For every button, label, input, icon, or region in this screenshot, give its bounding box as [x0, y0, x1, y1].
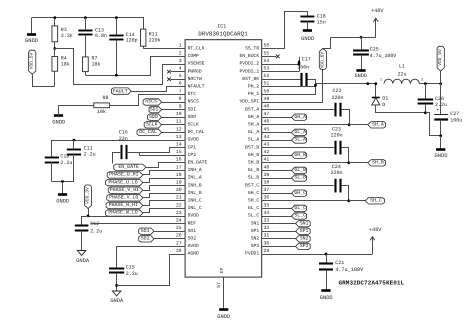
flag PHASE_V_HI	[108, 187, 143, 193]
svg-text:SP2: SP2	[300, 243, 309, 249]
svg-text:44: 44	[264, 134, 270, 140]
svg-text:35: 35	[264, 202, 270, 208]
svg-text:COMP: COMP	[188, 53, 199, 59]
svg-text:PHASE_W_HI: PHASE_W_HI	[109, 202, 138, 208]
capacitor C24 220n	[334, 179, 336, 193]
svg-text:4.7u_100V: 4.7u_100V	[335, 267, 364, 273]
svg-text:+48V: +48V	[369, 227, 382, 233]
svg-text:18k: 18k	[92, 62, 101, 68]
wire pin45 GL_A	[276, 132, 291, 134]
svg-text:15: 15	[176, 149, 182, 155]
svg-text:SL_A: SL_A	[294, 137, 306, 143]
svg-text:SP2: SP2	[251, 243, 260, 249]
svg-text:49: 49	[264, 96, 270, 102]
wire pin32 SP1	[276, 231, 295, 233]
svg-text:C10: C10	[60, 153, 69, 159]
capacitor C26 2.2u	[425, 84, 427, 100]
svg-text:22: 22	[176, 202, 182, 208]
svg-text:SH_A: SH_A	[372, 122, 384, 128]
svg-text:GH_C: GH_C	[294, 190, 306, 196]
svg-text:+48V: +48V	[371, 8, 384, 14]
flag SL_C	[292, 213, 307, 219]
svg-text:12: 12	[176, 126, 182, 132]
svg-text:PH_1: PH_1	[248, 91, 259, 97]
resistor R3 3.3k	[54, 18, 56, 26]
svg-text:41: 41	[264, 157, 270, 163]
node junction PH	[314, 84, 317, 87]
capacitor C15 2.2u	[109, 268, 124, 270]
wire pin37 GH_C	[276, 193, 291, 195]
svg-text:VDD_5V: VDD_5V	[29, 52, 35, 69]
wire pin47 GH_A	[276, 117, 291, 119]
wire SDI to pin9	[162, 109, 171, 111]
capacitor C18 15n	[300, 16, 314, 18]
svg-text:120p: 120p	[126, 38, 138, 44]
svg-text:PHASE_V_HI: PHASE_V_HI	[110, 187, 139, 193]
svg-text:GL_B: GL_B	[294, 167, 306, 173]
svg-text:2.2u: 2.2u	[60, 160, 72, 166]
node junction DVDD	[87, 215, 90, 218]
wire SDO to pin10	[162, 117, 171, 119]
svg-text:SN2: SN2	[251, 236, 260, 242]
svg-text:5: 5	[179, 73, 182, 79]
wire pin29 PVDD1	[276, 254, 372, 256]
svg-text:SCLK: SCLK	[188, 122, 199, 128]
svg-text:3: 3	[179, 58, 182, 64]
svg-text:INL_A: INL_A	[188, 175, 202, 181]
wire pin36 SH_C	[276, 200, 349, 202]
wire PHASE_V_LO to pin20	[143, 194, 171, 198]
node junction R3 top	[53, 16, 56, 19]
svg-text:C15: C15	[126, 265, 135, 271]
svg-text:EN_GATE: EN_GATE	[118, 164, 139, 170]
power flag VDD_5V right	[437, 46, 444, 71]
svg-text:BST_A: BST_A	[245, 106, 259, 112]
capacitor C27 100u polarized	[440, 84, 442, 115]
svg-text:GNDD: GNDD	[320, 295, 333, 301]
svg-text:SCLK: SCLK	[146, 122, 158, 128]
flag SH_A	[368, 122, 386, 128]
no-connect x pin4 PWRGD	[167, 70, 171, 74]
svg-text:PVDD2_1: PVDD2_1	[239, 68, 259, 74]
svg-text:10k: 10k	[97, 109, 106, 115]
resistor R11 220k	[141, 29, 146, 46]
svg-text:D: D	[382, 102, 385, 108]
wire L1 right to output node	[419, 83, 440, 85]
node junction R3/R4	[53, 47, 56, 50]
wire pin50 PH_1	[277, 87, 316, 95]
svg-text:37: 37	[264, 187, 270, 193]
wire PHASE_U_HI to pin17	[143, 171, 171, 175]
svg-text:SP1: SP1	[300, 228, 309, 234]
capacitor C12 2.2u	[75, 225, 89, 227]
flag GL_A	[292, 129, 307, 135]
svg-text:220n: 220n	[331, 132, 343, 138]
IC1 left pins 1-28	[171, 48, 186, 50]
svg-text:46: 46	[264, 119, 270, 125]
wire pin41 SH_B	[276, 162, 349, 164]
svg-text:INH_C: INH_C	[188, 198, 202, 204]
capacitor C21 4.7u_100V	[326, 254, 328, 264]
node junction PVDD2	[298, 63, 301, 66]
svg-text:40: 40	[264, 164, 270, 170]
ground GNDD at R8	[54, 114, 63, 117]
svg-text:DC_CAL: DC_CAL	[188, 129, 205, 135]
svg-text:1: 1	[179, 43, 182, 49]
svg-text:SN2: SN2	[300, 236, 309, 242]
wire pin43 BST_B to C23	[276, 147, 334, 149]
svg-text:R8: R8	[102, 95, 108, 101]
flag GH_B	[292, 152, 307, 158]
svg-text:GH_A: GH_A	[294, 114, 306, 120]
capacitor C11 2.2u	[73, 140, 75, 149]
wire EN_GATE to pin16	[146, 163, 171, 168]
svg-text:28: 28	[176, 248, 182, 254]
svg-text:SH_C: SH_C	[370, 198, 382, 204]
wire pin24 REF	[91, 223, 171, 225]
wire GVDD rail pin13	[52, 140, 171, 142]
power flag VDD_5V mid	[319, 48, 326, 69]
svg-text:INH_A: INH_A	[188, 167, 202, 173]
wire VDD_SPI pin49	[277, 70, 323, 103]
svg-text:47: 47	[264, 111, 270, 117]
flag SP1	[296, 228, 311, 234]
wire C16 right to pin14 CP1	[127, 148, 171, 153]
svg-text:C27: C27	[450, 111, 459, 117]
wire PHASE_U_LO to pin18	[143, 179, 171, 183]
svg-text:23: 23	[176, 210, 182, 216]
svg-text:C16: C16	[119, 130, 128, 136]
svg-text:DVDD: DVDD	[188, 213, 199, 219]
wire pin27 AVDD to C15	[117, 247, 171, 269]
node junction C14 bottom	[115, 74, 118, 77]
wire PH rail to L1	[316, 83, 376, 85]
svg-text:L1: L1	[399, 64, 405, 70]
ground GNDD below C21	[321, 289, 330, 292]
svg-text:SN1: SN1	[251, 220, 260, 226]
node junction C25 top	[360, 36, 363, 39]
svg-text:2: 2	[421, 78, 423, 83]
svg-text:1: 1	[380, 78, 382, 83]
svg-text:VDD_3V: VDD_3V	[85, 187, 91, 204]
node junction C27 gnd	[439, 134, 442, 137]
svg-text:19: 19	[176, 180, 182, 186]
wire pin30 SP2	[276, 246, 295, 248]
wire to flag SH_A	[349, 124, 368, 126]
ground GNDD below C25	[356, 69, 365, 72]
flag SH_C	[365, 198, 384, 204]
svg-text:EP: EP	[219, 267, 225, 273]
svg-text:4: 4	[179, 66, 182, 72]
svg-text:C17: C17	[302, 57, 311, 63]
svg-text:31: 31	[264, 233, 270, 239]
svg-text:GNDD: GNDD	[435, 153, 448, 159]
flag GL_C	[292, 205, 307, 211]
wire pin28 AGND	[117, 255, 171, 286]
flag SN1	[296, 220, 311, 226]
svg-text:PHASE_U_HI: PHASE_U_HI	[109, 172, 138, 178]
svg-text:INH_B: INH_B	[188, 182, 202, 188]
svg-text:GH_B: GH_B	[294, 152, 306, 158]
wire BST_BK cap to PH	[308, 80, 316, 95]
svg-text:SL_A: SL_A	[248, 137, 259, 143]
node junction rail	[366, 82, 369, 85]
svg-text:52: 52	[264, 73, 270, 79]
svg-text:32: 32	[264, 225, 270, 231]
svg-text:20: 20	[176, 187, 182, 193]
svg-text:SH_B: SH_B	[248, 160, 259, 166]
wire R11 to pin1 RT_CLK	[143, 48, 170, 50]
svg-text:INL_B: INL_B	[188, 190, 202, 196]
node junction C21 top	[325, 253, 328, 256]
resistor R8 10k	[59, 105, 94, 107]
wire pin39 SL_B	[276, 178, 291, 180]
svg-text:PVDD1: PVDD1	[245, 251, 259, 257]
wire divider to pin3 VSENSE	[55, 49, 171, 85]
svg-text:43: 43	[264, 142, 270, 148]
svg-text:D1: D1	[382, 95, 388, 101]
capacitor C14 120p	[116, 18, 118, 35]
svg-text:RT_CLK: RT_CLK	[188, 46, 205, 52]
svg-text:13: 13	[176, 134, 182, 140]
svg-text:15n: 15n	[317, 19, 326, 25]
IC IC1 DRV8301QDCARQ1 body	[185, 40, 262, 277]
wire DC_CAL to pin12	[162, 132, 171, 134]
wire FAULT to pin6 NFAULT	[132, 87, 171, 92]
svg-text:7: 7	[179, 88, 182, 94]
power symbol +48V bottom	[372, 237, 374, 254]
wire pin56 SS_TR to C18	[277, 12, 308, 49]
svg-text:GL_A: GL_A	[248, 129, 259, 135]
diode D1	[375, 84, 377, 98]
svg-text:VDD_5V: VDD_5V	[437, 49, 443, 66]
svg-text:SN1: SN1	[300, 220, 309, 226]
ground GNDA below C12	[77, 251, 86, 256]
ground GNDA below C15	[112, 291, 121, 296]
svg-text:GNDD: GNDD	[301, 36, 314, 42]
node junction D1 top	[374, 82, 377, 85]
svg-text:25: 25	[176, 225, 182, 231]
capacitor C10 2.2u	[51, 140, 53, 157]
power arrow at PVDD2	[299, 57, 301, 64]
svg-text:14: 14	[176, 142, 182, 148]
svg-text:FAULT: FAULT	[113, 88, 128, 94]
ground GNDD at EP	[219, 308, 228, 311]
capacitor C22 220n	[334, 103, 336, 117]
ground GNDD below C10	[62, 182, 64, 195]
svg-text:SH_B: SH_B	[372, 160, 384, 166]
wire VDD_5V flag to rail	[440, 71, 442, 84]
flag GL_B	[292, 167, 307, 173]
svg-text:38: 38	[264, 180, 270, 186]
svg-text:GNDD: GNDD	[25, 38, 38, 44]
svg-text:R11: R11	[149, 32, 158, 38]
svg-text:+: +	[436, 108, 439, 114]
svg-text:11: 11	[176, 119, 182, 125]
wire pin48 BST_A to C22	[276, 109, 334, 111]
wire CP2 branch to pin15	[140, 153, 171, 156]
flag SL_B	[292, 175, 307, 181]
svg-text:55: 55	[264, 50, 270, 56]
svg-text:24: 24	[176, 218, 182, 224]
flag EN_GATE	[114, 164, 146, 170]
flag nSCS	[143, 99, 162, 105]
svg-text:2.2u: 2.2u	[126, 271, 138, 277]
svg-text:BST_C: BST_C	[245, 182, 259, 188]
svg-text:21: 21	[176, 195, 182, 201]
svg-text:DRV8301QDCARQ1: DRV8301QDCARQ1	[198, 31, 248, 38]
svg-text:C25: C25	[370, 47, 379, 53]
svg-text:PHASE_U_LO: PHASE_U_LO	[108, 179, 137, 185]
flag SCLK	[144, 122, 161, 128]
flag DC_CAL	[137, 129, 162, 135]
svg-text:22u: 22u	[397, 71, 406, 77]
svg-text:30: 30	[264, 240, 270, 246]
svg-text:29: 29	[264, 248, 270, 254]
node junction AGND	[115, 284, 118, 287]
wire pin44 SL_A	[276, 140, 291, 142]
wire COMP network to pin2	[86, 57, 171, 76]
wire VDD_3V to pin23 DVDD	[89, 209, 171, 217]
svg-text:AGND: AGND	[188, 251, 199, 257]
wire D1 anode to ground net	[376, 105, 426, 113]
svg-text:PHASE_W_LO: PHASE_W_LO	[108, 210, 137, 216]
wire pin40 GL_B	[276, 170, 291, 172]
svg-text:DC_CAL: DC_CAL	[139, 129, 157, 135]
flag PHASE_U_HI	[107, 172, 143, 178]
svg-text:100u: 100u	[450, 117, 462, 123]
svg-text:100n: 100n	[297, 65, 309, 71]
wire top rail	[32, 18, 144, 30]
flag FAULT	[111, 88, 131, 94]
ground GNDD below C27	[436, 148, 445, 151]
svg-text:3.3k: 3.3k	[61, 33, 73, 39]
node junction C11 top	[73, 139, 76, 142]
svg-text:SDI: SDI	[188, 106, 197, 112]
node junction VDD_5V output	[439, 82, 442, 85]
svg-text:16: 16	[176, 157, 182, 163]
svg-text:GNDD: GNDD	[52, 119, 65, 125]
svg-text:SL_B: SL_B	[248, 175, 259, 181]
flag PHASE_W_HI	[106, 202, 143, 208]
svg-text:SO2: SO2	[141, 236, 150, 242]
wire C16 left to EN_GATE area	[113, 153, 122, 164]
node junction SH_A	[348, 123, 351, 126]
svg-text:53: 53	[264, 66, 270, 72]
svg-text:BST_BK: BST_BK	[242, 76, 259, 82]
svg-text:SDI: SDI	[150, 106, 159, 112]
svg-text:REF: REF	[188, 220, 197, 226]
svg-text:45: 45	[264, 126, 270, 132]
flag SP2	[296, 243, 311, 249]
flag SDI	[149, 106, 162, 112]
wire C23 to SH_B node	[342, 148, 349, 163]
resistor R4 18k	[54, 49, 56, 57]
node junction SH_B	[347, 161, 350, 164]
power flag VDD_3V	[84, 185, 91, 209]
svg-text:SL_B: SL_B	[294, 175, 306, 181]
svg-text:GNDD: GNDD	[355, 73, 367, 79]
svg-text:56: 56	[264, 43, 270, 49]
svg-text:10: 10	[176, 111, 182, 117]
wire PVDD2 tie pins 53/54	[276, 64, 299, 66]
svg-text:VDD_SPI: VDD_SPI	[239, 99, 259, 105]
svg-text:PWRGD: PWRGD	[188, 68, 202, 74]
flag PHASE_U_LO	[106, 179, 143, 185]
resistor R7 18k	[83, 57, 89, 72]
svg-text:VDD_5V: VDD_5V	[319, 52, 325, 69]
svg-text:36: 36	[264, 195, 270, 201]
svg-text:8: 8	[179, 96, 182, 102]
wire pin33 SN1	[276, 223, 295, 225]
no-connect x pin55 EN_BUCK	[276, 55, 280, 59]
svg-text:220n: 220n	[331, 95, 343, 101]
capacitor C16 22n	[121, 145, 123, 159]
svg-text:GL_A: GL_A	[294, 129, 306, 135]
svg-text:57: 57	[216, 282, 222, 288]
svg-text:GH_A: GH_A	[248, 114, 259, 120]
svg-text:17: 17	[176, 164, 182, 170]
svg-text:SDO: SDO	[188, 114, 197, 120]
svg-text:CP1: CP1	[188, 144, 197, 150]
svg-text:PH_2: PH_2	[248, 84, 259, 90]
no-connect x pin5 NOCTW	[167, 77, 171, 81]
node junction C14 top	[115, 16, 118, 19]
svg-text:PHASE_V_LO: PHASE_V_LO	[109, 195, 138, 201]
svg-text:VSENSE: VSENSE	[188, 61, 205, 67]
svg-text:NSCS: NSCS	[188, 99, 199, 105]
svg-text:6.8n: 6.8n	[95, 33, 107, 39]
svg-text:SDO: SDO	[149, 114, 158, 120]
wire C22 to SH_A node	[342, 110, 350, 125]
svg-text:SO2: SO2	[188, 236, 197, 242]
svg-text:C22: C22	[332, 88, 341, 94]
svg-text:34: 34	[264, 210, 270, 216]
svg-text:33: 33	[264, 218, 270, 224]
svg-text:18: 18	[176, 172, 182, 178]
svg-text:GH_C: GH_C	[248, 190, 259, 196]
capacitor C13 6.8n	[85, 18, 87, 30]
svg-text:2.2u: 2.2u	[84, 151, 96, 157]
svg-text:6: 6	[179, 81, 182, 87]
capacitor C23 220n	[334, 141, 336, 155]
wire PHASE_V_HI to pin19	[143, 186, 171, 191]
svg-text:2.2u: 2.2u	[90, 229, 102, 235]
wire C10/C11 bottom	[52, 181, 74, 183]
wire pin46 SH_A	[276, 124, 349, 126]
svg-text:GL_C: GL_C	[294, 205, 306, 211]
svg-text:9: 9	[179, 104, 182, 110]
svg-text:SO1: SO1	[188, 228, 197, 234]
ground GNDD top-left	[31, 18, 33, 34]
wire SO1 to pin25	[154, 231, 171, 233]
svg-text:BST_B: BST_B	[245, 144, 259, 150]
svg-text:EN_BUCK: EN_BUCK	[239, 53, 259, 59]
wire pin42 GH_B	[276, 155, 291, 157]
flag SDO	[148, 114, 162, 120]
wire DVDD to C12	[82, 217, 89, 226]
svg-text:C21: C21	[335, 260, 344, 266]
IC1 right pins 29-56	[262, 48, 277, 50]
svg-text:SL_C: SL_C	[294, 213, 306, 219]
node junction SH_C	[347, 199, 350, 202]
svg-text:22n: 22n	[119, 136, 128, 142]
wire pin38 BST_C to C24	[276, 185, 334, 187]
wire PHASE_W_LO to pin22	[143, 209, 171, 213]
flag SN2	[296, 236, 311, 242]
svg-text:INL_C: INL_C	[188, 205, 202, 211]
wire pin51 PH_2	[276, 86, 315, 88]
